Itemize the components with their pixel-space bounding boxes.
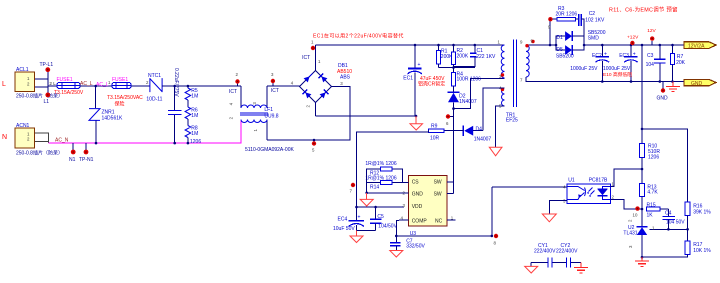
resistor R3 20R 1206 (snubber) [549, 6, 578, 46]
svg-text:1M: 1M [191, 131, 198, 137]
svg-text:4.7K: 4.7K [647, 190, 658, 196]
ground (primary) opto emitter [542, 214, 556, 222]
test point TP-L1 [40, 62, 54, 72]
test point ICT 9 [548, 17, 553, 30]
resistor R1 200K [437, 44, 454, 68]
capacitor C2 102 1KV (snubber) [575, 11, 605, 45]
diode D2 1N4007 [448, 92, 477, 108]
svg-text:104/50V: 104/50V [378, 224, 397, 230]
svg-text:ACL1: ACL1 [16, 67, 29, 73]
transformer TR1 EF25 [498, 39, 535, 124]
svg-text:222/400V: 222/400V [556, 249, 578, 255]
svg-text:LF1: LF1 [264, 107, 273, 113]
svg-text:CS: CS [412, 180, 420, 186]
wire ACN1 stubs [35, 133, 49, 143]
test point N1 [69, 143, 76, 163]
resistor R12 1R 1206 [365, 161, 402, 182]
svg-text:104 50V: 104 50V [666, 220, 685, 226]
resistor R8 1M [185, 119, 201, 145]
wire opto LED cathode to R15 node [610, 200, 642, 210]
test point ICT 3 [271, 72, 279, 94]
resistor R9 10R [429, 124, 464, 142]
svg-text:12V: 12V [647, 28, 656, 34]
wire AC return (bridge pin3 to choke) [267, 87, 350, 141]
wire snubber node [439, 64, 475, 68]
svg-text:1206: 1206 [190, 139, 201, 145]
svg-text:T3.15A/250V: T3.15A/250V [54, 90, 84, 96]
wire VDD net [357, 131, 429, 207]
svg-text:2 L: 2 L [49, 81, 56, 86]
svg-text:10R: 10R [430, 135, 440, 141]
wire bridge bottom to DC- row [315, 103, 317, 117]
svg-text:EC4: EC4 [338, 217, 348, 223]
thermistor NTC1 [146, 73, 162, 103]
bridge rectifier DB1 AB510 [291, 59, 353, 108]
svg-text:R11、C6-为EMC调节 预留: R11、C6-为EMC调节 预留 [609, 6, 678, 14]
svg-text:U1: U1 [568, 178, 575, 184]
test point GND with earth symbol [657, 82, 669, 102]
svg-text:GND: GND [657, 96, 669, 102]
wire secondary rail from pin 9 [526, 44, 684, 46]
svg-text:FUSE1: FUSE1 [112, 77, 128, 83]
junction D2 anode / TR1 pin3 link [452, 107, 455, 110]
svg-text:1M: 1M [191, 113, 198, 119]
ground (primary) TR1 pin5 [489, 147, 502, 156]
svg-text:N1: N1 [69, 157, 76, 163]
svg-text:EC1: EC1 [403, 76, 413, 82]
svg-text:10D-11: 10D-11 [146, 97, 162, 103]
common-mode choke LF1 UU9.8 [229, 86, 279, 140]
earth ground (secondary) near GND flag [666, 82, 680, 92]
svg-text:+: + [604, 52, 607, 58]
resistor R5 1M [185, 86, 198, 100]
junction resistor chain top [187, 85, 190, 88]
wire TR1 pin4 to D4 [483, 88, 504, 131]
svg-text:1206: 1206 [648, 155, 659, 161]
varistor ZNR1 [89, 86, 123, 143]
capacitor EC1 47uF 450V [403, 44, 445, 116]
test point ICT 2 [229, 72, 240, 95]
svg-text:D4: D4 [476, 127, 483, 133]
svg-text:C3: C3 [647, 53, 654, 59]
svg-text:1M: 1M [191, 94, 198, 100]
svg-text:1N4007: 1N4007 [459, 99, 477, 105]
wire secondary GND rail from pin 7 [526, 77, 684, 82]
test point ICT 1 [302, 40, 315, 62]
capacitor EC4 10uF 50V [333, 206, 376, 232]
svg-text:D1: D1 [556, 35, 563, 41]
svg-text:SW: SW [434, 180, 442, 186]
fuse FUSE1 (second, F2) [107, 77, 149, 108]
junction ZNR1 bottom [95, 142, 98, 145]
svg-text:R14: R14 [370, 185, 379, 191]
wire REF row [668, 228, 687, 230]
ground (primary) IC GND [360, 193, 373, 206]
resistor R7 20K [671, 44, 686, 83]
wire AC_N bus (magenta) [49, 121, 242, 144]
svg-text:GND: GND [691, 81, 703, 87]
svg-text:ICT: ICT [271, 88, 279, 94]
capacitor C3 104 [646, 44, 666, 83]
svg-text:VDD: VDD [412, 204, 423, 210]
svg-text:保险: 保险 [115, 101, 125, 108]
svg-text:AC_L: AC_L [80, 81, 93, 87]
svg-text:C5: C5 [377, 214, 384, 220]
svg-text:EF25: EF25 [506, 118, 518, 124]
test point ICT 8 [494, 234, 499, 246]
svg-text:EC2: EC2 [592, 53, 602, 59]
output flag 12V/2A [684, 42, 716, 50]
test point TP-N1 [79, 143, 94, 163]
test point ICT 5 [312, 139, 316, 153]
capacitor EC2 1000uF 25V [570, 44, 609, 83]
test point ICT 10 [633, 206, 640, 217]
svg-text:EC3: EC3 [619, 53, 629, 59]
capacitor C4 104 50V [650, 209, 686, 229]
earth ground (secondary) TL431/R17 [635, 256, 649, 266]
phase dot pin9 (red) [525, 44, 528, 47]
svg-text:C4: C4 [665, 211, 672, 217]
capacitor C7 332/50V [390, 236, 425, 251]
resistor R16 39K 1% [685, 202, 711, 241]
svg-text:+: + [633, 52, 636, 58]
optocoupler U1 PC817B [563, 178, 615, 204]
test point ICT 6 [446, 114, 454, 126]
svg-text:C2: C2 [589, 11, 596, 17]
wire ACL1 stubs [35, 70, 57, 95]
resistor R4 100R 1206 [452, 68, 482, 92]
wire IC pin stubs [367, 182, 456, 220]
svg-text:ICT: ICT [229, 89, 237, 95]
svg-text:39K 1%: 39K 1% [693, 210, 711, 216]
svg-text:铝壳CR暂定: 铝壳CR暂定 [418, 81, 445, 88]
wire R16 feed [642, 129, 688, 202]
wire DC+ rail [316, 44, 505, 46]
wire COMP net [396, 187, 567, 236]
wire bridge top to DC+ rail [315, 45, 317, 71]
svg-text:R15: R15 [647, 203, 656, 209]
diode D4 1N4007 [463, 126, 491, 143]
svg-text:20R 1206: 20R 1206 [556, 12, 578, 18]
svg-text:5110-0GMA092A-00K: 5110-0GMA092A-00K [245, 147, 294, 153]
svg-text:TP-L1: TP-L1 [40, 62, 54, 68]
svg-text:+12V: +12V [627, 35, 639, 41]
resistor R2 200K [452, 44, 469, 68]
fuse FUSE1 (F1) [54, 77, 84, 96]
wire TR1 pin5 to ground [496, 106, 505, 147]
svg-text:1000uF 25V: 1000uF 25V [570, 66, 598, 72]
resistor R10 510R 1206 [640, 143, 661, 183]
svg-text:C1: C1 [477, 48, 484, 54]
wire SW net vertical [453, 109, 455, 182]
svg-text:COMP: COMP [412, 219, 428, 225]
capacitor EC3 1000uF 25V E10 [603, 44, 638, 83]
capacitor CX 0.22uF/275V [168, 68, 182, 144]
svg-text:1R@1% 1206: 1R@1% 1206 [365, 161, 396, 167]
svg-text:102 1KV: 102 1KV [585, 17, 605, 23]
svg-text:222/400V: 222/400V [534, 249, 556, 255]
svg-text:R7: R7 [677, 54, 684, 60]
svg-text:NTC1: NTC1 [148, 73, 161, 79]
svg-text:1000uF 25V: 1000uF 25V [603, 66, 631, 72]
connector ACN1 [15, 123, 63, 157]
svg-text:TL431: TL431 [623, 230, 637, 236]
wire opto LED anode to R10/R13 junction [610, 169, 642, 187]
svg-text:PC817B: PC817B [589, 178, 608, 184]
svg-text:+: + [358, 215, 361, 221]
test point L1 [44, 93, 51, 106]
wire 12V feed to R10 (crosses GND rail) [641, 45, 643, 143]
svg-text:104: 104 [646, 62, 655, 68]
junction at ZNR1 top [94, 85, 97, 88]
capacitor C5 104/50V [370, 206, 398, 231]
svg-text:E10 高频低阻: E10 高频低阻 [603, 71, 632, 78]
output flag GND [684, 79, 716, 86]
svg-text:10uF 50V: 10uF 50V [333, 226, 355, 232]
connector ACL1 [15, 67, 63, 100]
svg-text:SMD: SMD [588, 36, 600, 42]
svg-text:ABS: ABS [340, 75, 351, 81]
IC U3 (controller) [401, 176, 454, 238]
svg-text:250-0.8插片（防呆）: 250-0.8插片（防呆） [16, 150, 63, 157]
svg-text:1K: 1K [647, 212, 654, 218]
junction X-cap top [173, 85, 176, 88]
test point +12V [627, 35, 639, 46]
svg-text:200K: 200K [457, 54, 469, 60]
wire NTC1 to choke [162, 85, 241, 87]
svg-text:R9: R9 [431, 124, 438, 130]
wire R14 to GND pin row [366, 182, 368, 193]
svg-text:T3.15A/250VAC: T3.15A/250VAC [107, 95, 143, 101]
svg-text:D5: D5 [556, 47, 563, 53]
svg-text:NC: NC [435, 219, 443, 225]
ground (primary) at DC- [410, 116, 423, 130]
svg-text:100R 1206: 100R 1206 [457, 77, 482, 83]
resistor R15 1K [647, 203, 669, 219]
junction DC- at EC1 [415, 115, 418, 118]
svg-text:GND: GND [412, 192, 424, 198]
resistor R13 4.7K [640, 184, 659, 210]
svg-text:222 1KV: 222 1KV [476, 54, 496, 60]
svg-text:14D561K: 14D561K [102, 116, 124, 122]
wire to TR1 pin 3 [454, 79, 505, 109]
svg-text:UU9.8: UU9.8 [264, 114, 278, 120]
svg-text:FUSE1: FUSE1 [57, 77, 73, 83]
capacitor C1 222 1KV [454, 44, 497, 67]
svg-text:0.22uF/275V: 0.22uF/275V [173, 68, 179, 97]
shunt regulator U2 TL431 [623, 209, 655, 257]
test point 12V [647, 28, 656, 45]
diode D1 SB5200 SMD (top) [556, 30, 606, 45]
svg-text:TP-N1: TP-N1 [79, 157, 94, 163]
svg-text:10K 1%: 10K 1% [693, 248, 711, 254]
svg-text:AC_L: AC_L [96, 82, 109, 88]
svg-text:N: N [2, 134, 7, 141]
svg-text:L: L [2, 81, 6, 88]
test point ICT 7 [350, 183, 356, 194]
ground (primary) CY1 [525, 263, 538, 274]
capacitor CY1 222/400V [531, 243, 566, 268]
svg-text:SB5200: SB5200 [556, 53, 574, 59]
earth ground (secondary) CY2 [574, 263, 588, 273]
svg-text:ACN1: ACN1 [16, 123, 30, 129]
svg-text:12V/2A: 12V/2A [688, 43, 705, 49]
svg-text:1N4007: 1N4007 [474, 137, 492, 143]
resistor R6 1M [185, 100, 198, 119]
svg-text:20K: 20K [676, 60, 686, 66]
wire fuse1 to AC_L [80, 85, 112, 87]
wire opto emitter to ground [549, 200, 567, 214]
svg-text:R12: R12 [370, 171, 379, 177]
ground (primary) C7 [390, 251, 403, 258]
wire fuse2 to NTC1 [131, 85, 149, 87]
svg-text:+: + [418, 62, 421, 68]
svg-text:10: 10 [633, 212, 638, 217]
resistor R14 1R 1206 [365, 176, 402, 191]
svg-text:EC1在可以用2个22uF/400V电容替代: EC1在可以用2个22uF/400V电容替代 [313, 33, 404, 40]
wire DC- row [316, 115, 417, 117]
ground (primary) EC4 [350, 231, 363, 243]
svg-text:ICT: ICT [302, 55, 310, 61]
capacitor CY2 222/400V [556, 243, 581, 268]
svg-text:332/50V: 332/50V [406, 243, 425, 249]
svg-text:SW: SW [434, 192, 442, 198]
wire choke to bridge [267, 85, 300, 87]
svg-text:L1: L1 [44, 99, 50, 105]
resistor R17 10K 1% [642, 241, 711, 257]
diode D5 SB5200 (bottom) [555, 44, 586, 60]
